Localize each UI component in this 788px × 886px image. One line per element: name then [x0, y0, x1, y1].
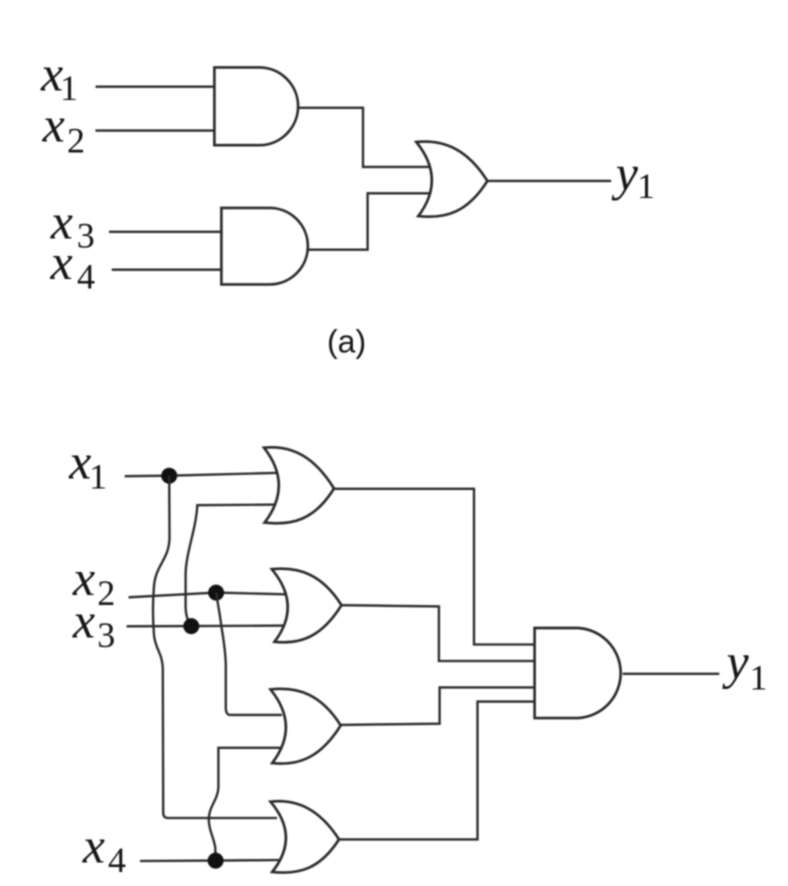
wire U4 output to U8: [334, 489, 535, 645]
svg-text:x4: x4: [82, 818, 126, 881]
wire U6 output to U8: [341, 687, 535, 725]
or-gate U4: [264, 447, 334, 523]
wire U2 output to U3: [306, 193, 432, 249]
wire U5 output to U8: [342, 605, 535, 661]
junction dot x1: [161, 468, 177, 484]
or-gate U3: [416, 142, 487, 217]
or-gate U6: [271, 689, 341, 764]
wire x4 to U2: [112, 269, 222, 271]
junction dot x2: [208, 585, 224, 601]
or-gate U5: [272, 569, 342, 643]
wire U7 output to U8: [339, 702, 535, 840]
junction dot x3: [183, 618, 199, 634]
wire x2 to U5: [129, 593, 286, 598]
and-gate U1: [214, 67, 298, 145]
svg-text:x2: x2: [42, 97, 85, 161]
wire x1 to U4: [125, 473, 280, 476]
wire x1 branch to U7: [153, 476, 277, 818]
or-gate U7: [271, 801, 340, 872]
wire x4 branch to U6: [209, 748, 280, 861]
svg-text:y1: y1: [611, 145, 655, 206]
wire x2 to U1: [96, 129, 215, 131]
and-gate U2: [221, 208, 307, 285]
wire x3 to U2: [109, 231, 221, 233]
and-gate U8: [535, 628, 621, 718]
svg-text:y1: y1: [722, 634, 768, 698]
wire U3 output y1: [487, 180, 611, 182]
wire x1 to U1: [96, 86, 215, 88]
svg-text:(a): (a): [327, 324, 366, 360]
wire x4 to U7: [140, 860, 280, 861]
wire U1 output to U3: [297, 108, 432, 167]
wire x3 to U5: [127, 624, 285, 627]
wire U8 output y1: [623, 673, 720, 675]
wire x2 branch to U6: [216, 593, 282, 715]
svg-text:x1: x1: [68, 434, 107, 497]
junction dot x4: [208, 853, 224, 869]
wire x3 branch to U4: [186, 505, 280, 626]
